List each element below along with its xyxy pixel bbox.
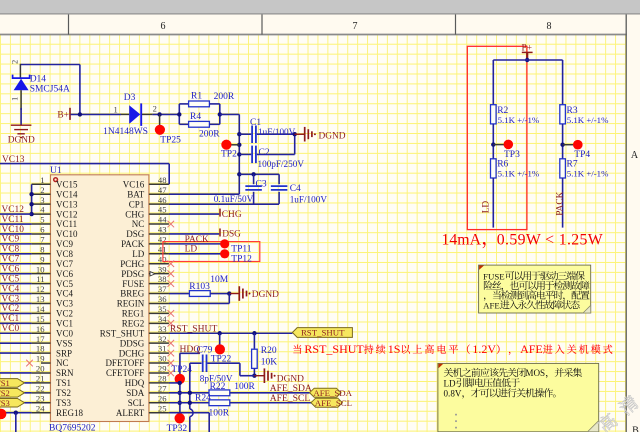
- svg-text:AFE_SCL: AFE_SCL: [270, 393, 311, 404]
- svg-text:VC3: VC3: [2, 294, 20, 304]
- capacitor C79: [203, 354, 207, 372]
- directive box PACK LD: [163, 242, 260, 262]
- wire: [253, 368, 255, 375]
- wire: [253, 333, 255, 348]
- wire: [239, 363, 241, 376]
- no-connect pin 40: [168, 260, 175, 267]
- diode D14: [13, 75, 30, 79]
- wire to TP22: [219, 333, 221, 348]
- wire: [25, 382, 32, 384]
- note marker triangle: [479, 266, 484, 270]
- no-connect pin 38: [168, 280, 175, 287]
- no-connect pin 34: [168, 320, 175, 327]
- svg-text:DSG: DSG: [222, 230, 241, 240]
- svg-text:200R: 200R: [199, 130, 220, 140]
- pin 30 (DFETOFF) of U1: [149, 362, 169, 364]
- svg-text:C3: C3: [256, 180, 267, 190]
- svg-text:5.1K +/-1%: 5.1K +/-1%: [567, 115, 609, 125]
- svg-text:AFE: AFE: [520, 342, 543, 356]
- svg-text:U1: U1: [50, 166, 62, 176]
- svg-text:FUSE: FUSE: [483, 271, 505, 281]
- svg-text:0.59W < 1.25W: 0.59W < 1.25W: [497, 231, 603, 248]
- svg-text:39: 39: [158, 264, 167, 274]
- svg-text:46: 46: [158, 195, 167, 205]
- svg-text:20: 20: [36, 364, 45, 374]
- svg-text:8: 8: [40, 244, 44, 254]
- resistor R103: [189, 291, 210, 297]
- svg-text:DDSG: DDSG: [120, 338, 145, 348]
- junction: [237, 152, 241, 156]
- wire: [0, 302, 32, 304]
- svg-text:TS1: TS1: [56, 378, 71, 388]
- svg-text:10: 10: [36, 264, 45, 274]
- test point TP12: [220, 249, 229, 258]
- svg-text:TS3: TS3: [56, 398, 72, 408]
- wire: [493, 59, 562, 61]
- junction: [252, 331, 256, 335]
- svg-text:R1: R1: [191, 91, 202, 101]
- test point TP4 stub: [563, 144, 574, 146]
- svg-text:TP25: TP25: [160, 135, 181, 145]
- junction: [491, 142, 495, 146]
- svg-text:38: 38: [158, 274, 167, 284]
- header band: [0, 15, 640, 35]
- header divider 3: [455, 15, 457, 35]
- svg-text:REGIN: REGIN: [117, 299, 145, 309]
- pin 14 (VC2) of U1: [32, 312, 51, 314]
- svg-text:R103: R103: [189, 282, 210, 292]
- svg-text:REG18: REG18: [56, 408, 84, 418]
- svg-text:VC1: VC1: [2, 314, 20, 324]
- svg-text:5.1K +/-1%: 5.1K +/-1%: [498, 115, 540, 125]
- svg-text:SRP: SRP: [56, 348, 72, 358]
- resistor R1: [189, 101, 210, 107]
- wire: [0, 233, 32, 235]
- svg-text:VC10: VC10: [56, 229, 78, 239]
- wire: [492, 124, 494, 159]
- pin 48 (VC16) of U1: [149, 183, 169, 185]
- net tick B+: [69, 108, 71, 120]
- svg-text:35: 35: [158, 304, 167, 314]
- svg-text:11: 11: [36, 274, 44, 284]
- svg-text:100pF/250V: 100pF/250V: [258, 159, 305, 169]
- svg-text:VC10: VC10: [2, 225, 25, 235]
- svg-text:DFETOFF: DFETOFF: [105, 358, 144, 368]
- net tick DSG: [219, 228, 221, 236]
- svg-text:VC5: VC5: [56, 279, 74, 289]
- net stub P+: [526, 52, 528, 60]
- wire: [0, 312, 32, 314]
- svg-text:D3: D3: [124, 93, 136, 103]
- svg-text:30: 30: [158, 354, 167, 364]
- svg-text:PDSG: PDSG: [121, 269, 145, 279]
- wire ALERT pin 25: [169, 412, 209, 414]
- wire: [178, 104, 180, 124]
- pin 12 (VC4) of U1: [32, 293, 51, 295]
- svg-text:R24: R24: [195, 393, 211, 403]
- resistor R3: [560, 105, 566, 124]
- test point TP2: [221, 140, 231, 150]
- svg-text:SMCJ54A: SMCJ54A: [30, 85, 70, 95]
- junction: [251, 172, 255, 176]
- wire: [210, 293, 229, 295]
- svg-text:AFE_SDA: AFE_SDA: [313, 388, 352, 398]
- svg-text:FUSE: FUSE: [122, 279, 145, 289]
- svg-text:HDQ: HDQ: [125, 378, 145, 388]
- svg-text:1uF/100V: 1uF/100V: [258, 127, 296, 137]
- wire: [0, 253, 32, 255]
- junction: [178, 391, 182, 395]
- svg-text:1N4148WS: 1N4148WS: [103, 127, 148, 137]
- svg-text:5.1K +/-1%: 5.1K +/-1%: [498, 169, 540, 179]
- no-connect pin 29: [168, 370, 175, 377]
- no-connect pin 44: [168, 221, 175, 228]
- svg-text:R22: R22: [210, 382, 226, 392]
- power ground DGND at R20: [254, 368, 271, 383]
- pin 9 (VC7) of U1: [32, 263, 51, 265]
- wire: [207, 362, 240, 364]
- svg-text:CFETOFF: CFETOFF: [106, 368, 144, 378]
- svg-text:VC12: VC12: [56, 209, 78, 219]
- svg-text:RST_SHUT: RST_SHUT: [304, 342, 364, 356]
- svg-text:36: 36: [158, 294, 167, 304]
- net tick CHG: [219, 209, 221, 217]
- capacitor C1: [252, 125, 256, 143]
- pin 41 (LD) of U1: [149, 253, 169, 255]
- test point TP2 stub: [231, 144, 239, 146]
- pin 11 (VC5) of U1: [32, 283, 51, 285]
- svg-text:R4: R4: [190, 112, 201, 122]
- svg-text:200R: 200R: [214, 92, 235, 102]
- port TS1: [0, 379, 25, 388]
- no-connect pin 39: [168, 270, 175, 277]
- port AFE_SDA: [310, 388, 341, 397]
- wire DSG: [169, 233, 219, 235]
- svg-text:REG1: REG1: [122, 309, 145, 319]
- pin 19 (NC) of U1: [41, 362, 51, 364]
- diode D3: [129, 105, 140, 124]
- wire BAT pin 47: [169, 193, 239, 195]
- capacitor C3 bottom lead: [253, 192, 255, 204]
- capacitor C2: [252, 146, 256, 164]
- pin 20 (SRN) of U1: [32, 372, 51, 374]
- wire: [294, 134, 296, 154]
- svg-text:19: 19: [36, 354, 45, 364]
- pin 28 (HDQ) of U1: [149, 382, 169, 384]
- svg-text:BAT: BAT: [127, 189, 145, 199]
- svg-text:TP4: TP4: [574, 150, 590, 160]
- svg-text:1uF/100V: 1uF/100V: [290, 195, 328, 205]
- junction: [178, 381, 182, 385]
- svg-text:RST_SHUT: RST_SHUT: [100, 328, 145, 338]
- svg-text:REG2: REG2: [122, 319, 145, 329]
- junction R1R4 left: [177, 112, 181, 116]
- port TS3: [0, 398, 25, 407]
- svg-text:BQ7695202: BQ7695202: [49, 423, 96, 432]
- svg-text:VC15: VC15: [56, 180, 78, 190]
- wire: [257, 133, 295, 135]
- svg-text:33: 33: [158, 324, 167, 334]
- wire SCL pin 26: [169, 402, 209, 404]
- pin 39 output designator triangle: [150, 272, 155, 276]
- diode D14 pin 2: [19, 64, 21, 78]
- svg-text:TS1: TS1: [0, 378, 10, 388]
- resistor R20: [252, 349, 258, 368]
- svg-text:TS2: TS2: [56, 388, 71, 398]
- wire: [220, 113, 240, 115]
- port AFE_SCL: [311, 398, 342, 407]
- svg-text:CHG: CHG: [125, 209, 145, 219]
- pin 32 (DDSG) of U1: [149, 342, 169, 344]
- svg-text:VC1: VC1: [56, 319, 73, 329]
- pin 22 (TS2) of U1: [32, 392, 51, 394]
- wire: [0, 412, 32, 414]
- note box shutdown: [438, 363, 599, 431]
- svg-text:10K: 10K: [261, 357, 278, 367]
- capacitor C4 top lead: [278, 174, 280, 184]
- pin 23 (TS3) of U1: [32, 402, 51, 404]
- junction: [14, 410, 18, 414]
- svg-text:22: 22: [36, 383, 45, 393]
- resistor R6: [491, 159, 497, 178]
- svg-text:5.1K +/-1%: 5.1K +/-1%: [567, 169, 609, 179]
- no-connect pin 32: [168, 340, 175, 347]
- resistor R2: [491, 105, 497, 124]
- svg-text:4: 4: [40, 205, 45, 215]
- svg-text:VC2: VC2: [56, 309, 73, 319]
- junction: [237, 172, 241, 176]
- pin 13 (VC3) of U1: [32, 302, 51, 304]
- svg-text:40: 40: [158, 254, 167, 264]
- svg-text:16: 16: [36, 324, 45, 334]
- pin 33 (RST_SHUT) of U1: [149, 332, 169, 334]
- svg-text:5: 5: [40, 215, 44, 225]
- wire CP1 pin 46: [169, 203, 279, 205]
- svg-text:VC12: VC12: [2, 205, 25, 215]
- right margin: [627, 15, 640, 432]
- svg-text:15: 15: [36, 314, 45, 324]
- svg-text:42: 42: [158, 234, 167, 244]
- junction: [78, 112, 82, 116]
- svg-text:2: 2: [10, 60, 20, 64]
- svg-text:6: 6: [40, 225, 45, 235]
- svg-text:8: 8: [547, 21, 552, 32]
- no-connect pin 30: [168, 360, 175, 367]
- capacitor C4: [271, 186, 288, 190]
- svg-text:24: 24: [36, 403, 45, 413]
- port TS2: [0, 389, 25, 398]
- svg-text:VC4: VC4: [56, 289, 74, 299]
- wire: [562, 60, 564, 105]
- wire: [208, 413, 210, 432]
- note resize dots: [455, 414, 457, 429]
- svg-text:A: A: [631, 150, 639, 161]
- wire: [179, 103, 188, 105]
- svg-text:DCHG: DCHG: [119, 348, 145, 358]
- note text line 1: [483, 271, 585, 281]
- test point TP24: [175, 374, 185, 384]
- svg-text:43: 43: [158, 225, 167, 235]
- svg-text:MOS: MOS: [525, 368, 545, 378]
- diode D3 pin 1: [121, 113, 129, 115]
- svg-text:C79: C79: [197, 346, 213, 356]
- pin 4 (VC12) of U1: [32, 213, 51, 215]
- svg-text:0.8V: 0.8V: [444, 389, 462, 399]
- svg-text:12: 12: [36, 284, 45, 294]
- wire: [562, 178, 564, 228]
- pin 35 (REG1) of U1: [149, 312, 169, 314]
- pin 39 (PDSG) of U1: [149, 273, 169, 275]
- svg-text:TP2: TP2: [221, 150, 237, 160]
- svg-text:32: 32: [158, 334, 167, 344]
- no-connect pin 19: [26, 360, 33, 367]
- wire: [190, 362, 202, 364]
- pin 44 (NC) of U1: [149, 223, 169, 225]
- svg-text:41: 41: [158, 244, 167, 254]
- svg-text:7: 7: [353, 21, 358, 32]
- svg-text:D14: D14: [30, 74, 47, 84]
- pin 31 (DCHG) of U1: [149, 352, 169, 354]
- pin 43 (DSG) of U1: [149, 233, 169, 235]
- svg-text:27: 27: [158, 383, 167, 393]
- wire LD: [169, 253, 221, 255]
- header divider 2: [261, 15, 263, 35]
- svg-text:VC7: VC7: [56, 259, 74, 269]
- svg-text:AFE: AFE: [483, 301, 500, 311]
- svg-text:RST_SHUT: RST_SHUT: [301, 328, 345, 338]
- wire hop over ALERT: [190, 409, 193, 417]
- wire: [168, 164, 170, 185]
- wire: [0, 263, 32, 265]
- wire: [0, 273, 32, 275]
- junction: [218, 331, 222, 335]
- wire: [0, 283, 32, 285]
- svg-text:VC11: VC11: [2, 215, 24, 225]
- svg-text:7: 7: [40, 234, 45, 244]
- wire: [240, 375, 255, 377]
- svg-text:2: 2: [153, 104, 157, 114]
- ground DGND (earth) for D14: [11, 125, 32, 137]
- svg-text:AFE_SCL: AFE_SCL: [315, 398, 352, 408]
- svg-text:CP1: CP1: [129, 199, 145, 209]
- svg-text:PACK: PACK: [185, 235, 209, 245]
- IC U1 origin marker: [54, 178, 58, 182]
- svg-text:C4: C4: [290, 184, 301, 194]
- pin 2 (VC14) of U1: [32, 193, 51, 195]
- svg-text:BREG: BREG: [120, 289, 145, 299]
- svg-text:26: 26: [158, 393, 167, 403]
- junction: [293, 132, 297, 136]
- wire: [0, 243, 32, 245]
- svg-text:17: 17: [36, 334, 45, 344]
- diode D3 pin 2: [142, 113, 152, 115]
- wire: [239, 133, 251, 135]
- wire: [230, 402, 311, 404]
- svg-text:VC16: VC16: [123, 180, 145, 190]
- svg-text:DSG: DSG: [126, 229, 145, 239]
- svg-text:2: 2: [40, 185, 44, 195]
- wire: [20, 108, 22, 125]
- svg-text:10M: 10M: [210, 275, 229, 285]
- svg-text:DGND: DGND: [252, 290, 279, 300]
- wire: [0, 352, 32, 354]
- capacitor C3 top lead: [253, 174, 255, 184]
- resistor R24: [209, 400, 230, 406]
- svg-text:VC8: VC8: [2, 245, 20, 255]
- pin 21 (TS1) of U1: [32, 382, 51, 384]
- note2 text line 3: [444, 388, 556, 398]
- junction: [188, 391, 192, 395]
- svg-text:31: 31: [158, 344, 167, 354]
- pin 45 (CHG) of U1: [149, 213, 169, 215]
- test point TP3: [504, 140, 514, 150]
- wire RST_SHUT: [169, 332, 293, 334]
- wire: [0, 293, 32, 295]
- test point TP32: [175, 413, 185, 423]
- wire BAT node column: [238, 114, 240, 194]
- note text line 2: [484, 281, 590, 291]
- wire: [228, 294, 230, 304]
- svg-text:23: 23: [36, 393, 45, 403]
- svg-text:VC2: VC2: [2, 304, 20, 314]
- svg-text:PACK: PACK: [121, 239, 145, 249]
- no-connect pin 35: [168, 310, 175, 317]
- pin 37 (BREG) of U1: [149, 293, 169, 295]
- svg-text:13: 13: [36, 294, 45, 304]
- svg-text:VC14: VC14: [56, 189, 78, 199]
- wire: [230, 392, 310, 394]
- diode D14 pin 1: [20, 90, 22, 110]
- wire: [152, 113, 179, 115]
- svg-text:TP11: TP11: [231, 245, 251, 255]
- wire: [492, 60, 494, 105]
- svg-text:B: B: [632, 426, 639, 432]
- svg-text:TP3: TP3: [504, 150, 520, 160]
- svg-text:VC0: VC0: [2, 324, 20, 334]
- resistor R7: [560, 159, 566, 178]
- junction: [188, 401, 192, 405]
- resistor R22: [209, 390, 230, 396]
- watermark bottom right: [596, 411, 619, 432]
- svg-text:VC6: VC6: [56, 269, 74, 279]
- annotation RST_SHUT warning: [293, 342, 612, 356]
- wire: [562, 124, 564, 159]
- junction: [525, 58, 529, 62]
- svg-text:25: 25: [158, 403, 167, 413]
- svg-text:1.2V: 1.2V: [472, 342, 496, 356]
- svg-text:28: 28: [158, 374, 167, 384]
- note text line 3: [484, 290, 590, 300]
- pin 25 (ALERT) of U1: [149, 412, 169, 414]
- directive box LD PACK dividers: [467, 46, 527, 229]
- pin 29 (CFETOFF) of U1: [149, 372, 169, 374]
- pin 27 (SDA) of U1: [149, 392, 169, 394]
- wire: [492, 178, 494, 228]
- pin 18 (SRP) of U1: [32, 352, 51, 354]
- wire CHG: [169, 213, 219, 215]
- svg-text:1S: 1S: [388, 342, 401, 356]
- wire: [0, 332, 32, 334]
- junction: [227, 291, 231, 295]
- wire: [0, 322, 32, 324]
- wire TP24 column: [179, 353, 181, 418]
- wire: [189, 417, 191, 432]
- svg-text:VC8: VC8: [56, 249, 74, 259]
- pin 26 (SCL) of U1: [149, 402, 169, 404]
- wire HDQ: [180, 352, 200, 354]
- svg-text:B+: B+: [57, 111, 69, 121]
- test point TP22: [215, 344, 225, 354]
